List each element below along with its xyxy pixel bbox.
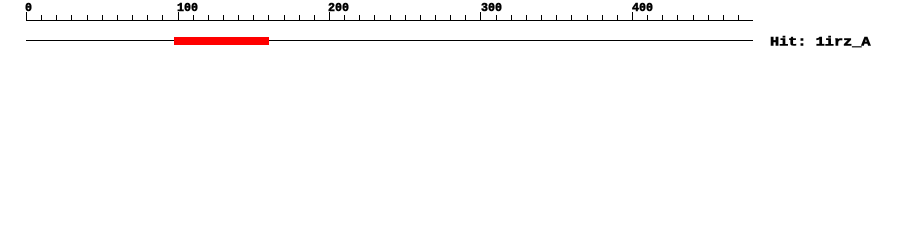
svg-text:200: 200 bbox=[328, 1, 349, 15]
svg-text:400: 400 bbox=[632, 1, 653, 15]
svg-text:0: 0 bbox=[25, 1, 32, 15]
svg-text:300: 300 bbox=[481, 1, 502, 15]
svg-text:100: 100 bbox=[177, 1, 198, 15]
svg-text:Hit: 1irz_A: Hit: 1irz_A bbox=[770, 34, 871, 49]
